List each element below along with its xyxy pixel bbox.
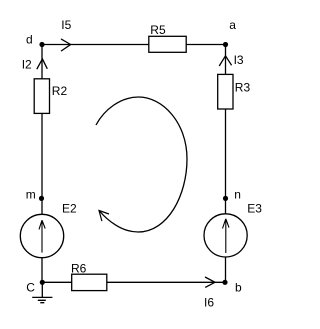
current arrow I5 [61,39,71,51]
resistor R5 [149,36,186,52]
node C [40,280,45,285]
wire left: R2 to E2 through node m [41,113,43,214]
svg-text:a: a [229,18,236,32]
svg-text:I2: I2 [22,58,32,72]
svg-text:R3: R3 [235,80,251,94]
svg-text:E2: E2 [62,202,77,216]
source E3 [204,214,247,257]
current arrow I6 [205,277,215,287]
current arrow I2 [37,59,48,69]
node d [39,42,44,47]
current arrow I3 [219,56,231,66]
resistor R2 [34,79,49,114]
node m [39,196,44,201]
svg-text:d: d [26,33,33,47]
svg-text:I5: I5 [61,18,71,32]
source E3 arrow [223,219,230,253]
node n [223,196,228,201]
svg-text:n: n [234,187,241,201]
svg-text:C: C [26,281,35,295]
svg-text:I3: I3 [234,53,244,67]
wire top: R5 to a [186,44,225,46]
svg-text:m: m [26,188,36,202]
wire right: a to R3 [225,45,227,75]
svg-text:I6: I6 [204,296,214,310]
node b [222,280,227,285]
resistor R3 [218,74,233,109]
wire left: d to R2 [41,45,43,79]
wire right: R3 to E3 through node n [225,109,227,214]
wire right: E3 to b [225,257,227,282]
svg-text:R5: R5 [150,23,166,37]
loop arrowhead [99,211,109,222]
resistor R6 [72,274,107,290]
wire bottom: C to R6 [42,281,71,283]
ground [32,282,52,302]
node a [223,42,228,47]
svg-text:b: b [235,280,242,294]
loop arrow [96,97,187,232]
svg-text:R6: R6 [71,261,87,275]
source E2 [20,214,63,257]
wire top: d to R5 [42,44,149,46]
svg-text:E3: E3 [247,201,262,215]
svg-text:R2: R2 [52,84,68,98]
wire bottom: R6 to b [107,281,225,283]
wire left: E2 to C [41,258,43,283]
source E2 arrow [39,220,45,252]
